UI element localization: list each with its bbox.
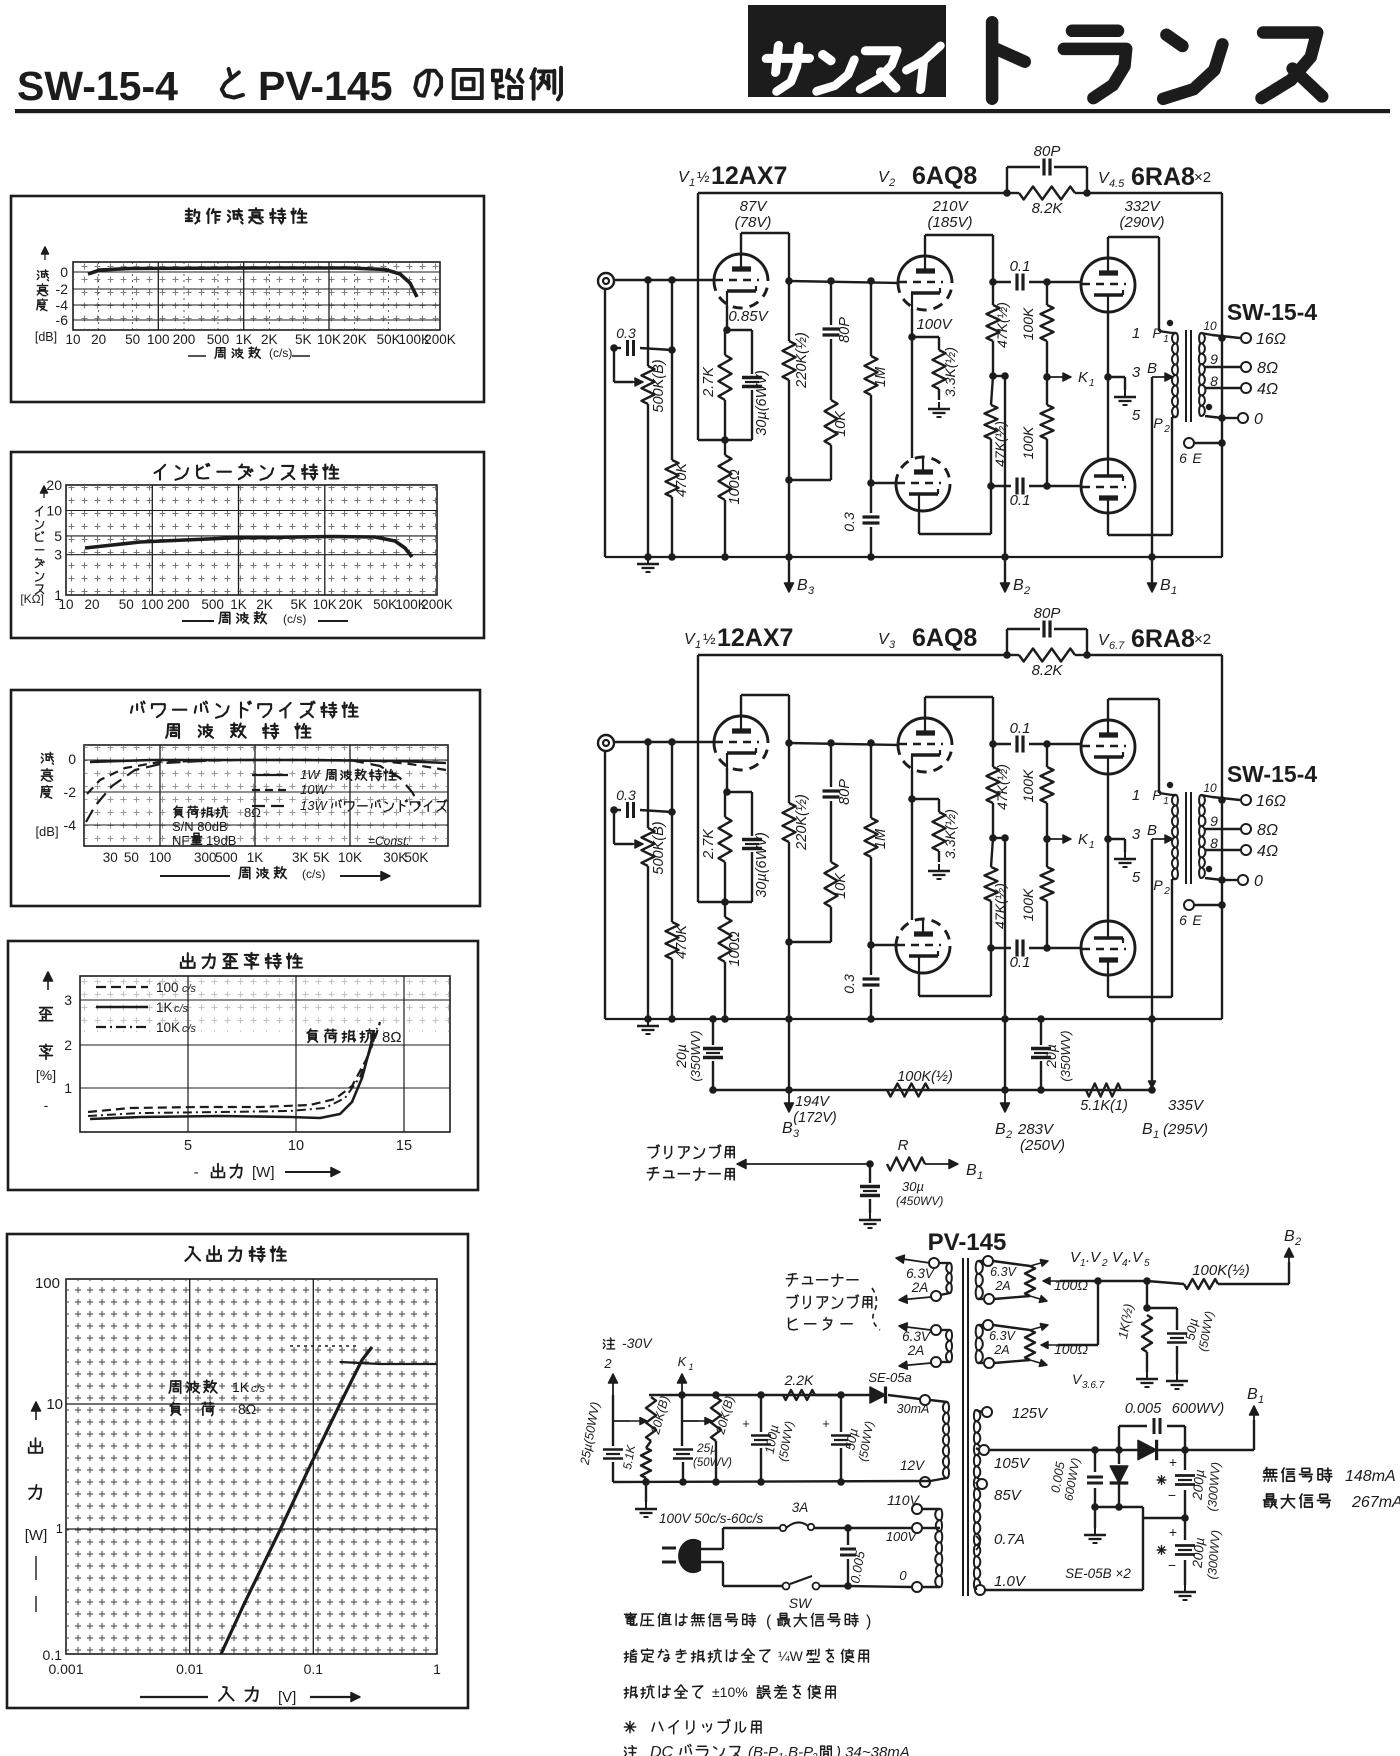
svg-text:SW-15-4: SW-15-4 [1227,299,1317,325]
svg-text:B: B [1247,1386,1258,1403]
svg-text:200K: 200K [424,332,456,347]
svg-text:20: 20 [84,597,99,612]
capacitor 0.3 (tone) [610,344,618,352]
bias supply -30V note [603,1338,614,1349]
svg-text:100: 100 [149,850,172,865]
svg-text:3: 3 [1132,826,1141,843]
svg-text:6RA8: 6RA8 [1131,625,1195,653]
svg-text:10: 10 [46,503,62,519]
svg-text:P: P [1153,877,1163,893]
cathode resistor 3.3K(1/2) [933,812,946,851]
output transformer SW-15-4 primary winding [1172,795,1178,879]
svg-text:±10%: ±10% [712,1684,748,1700]
output tube V5 6RA8 (mirrored) [1081,921,1135,975]
svg-text:(185V): (185V) [927,214,972,231]
volume pot 500K(B) [644,276,652,284]
svg-text:500K(B): 500K(B) [651,821,667,874]
svg-text:1: 1 [977,1170,983,1182]
svg-text:(295V): (295V) [1163,1121,1208,1138]
transformer core [1185,330,1187,422]
svg-text:P: P [1152,787,1162,803]
Sansui logo black box [748,5,946,97]
V5 plate wire to transformer P2 [1107,512,1109,535]
svg-text:E: E [1192,450,1202,466]
line filter capacitor 0.005 [847,1528,849,1545]
svg-text:50K: 50K [373,597,397,612]
svg-text:3: 3 [1132,364,1141,381]
svg-text:10: 10 [1203,781,1217,795]
svg-text:1: 1 [433,1661,441,1677]
svg-text:47K(½): 47K(½) [994,764,1010,810]
triode V2b (1/2 6AQ8 phase splitter) [896,457,950,484]
heater bias network 1K(1/2) + cap [1146,1281,1148,1308]
svg-text:12V: 12V [900,1458,926,1473]
svg-text:4Ω: 4Ω [1257,843,1278,860]
wire up to B2 [1288,1262,1290,1284]
compensation capacitor 80P [827,277,835,285]
cathode ground [1124,390,1126,397]
svg-text:2: 2 [811,1752,818,1756]
svg-text:B: B [782,1120,793,1137]
wire: V1 plate to V2 grid (DC coupled) [789,743,899,745]
svg-text:×2: ×2 [1194,631,1211,648]
hum balance pot 100 ohm upper [1025,1266,1035,1296]
wire: bus down to 16-ohm tap [1221,193,1223,338]
V4 grid wire [1047,743,1082,745]
svg-text:3: 3 [808,585,815,597]
svg-text:6: 6 [1179,450,1187,466]
svg-text:0.3: 0.3 [616,787,636,803]
svg-text:-4: -4 [64,817,77,833]
top feedback bus wire [698,654,1007,656]
svg-text:2.2K: 2.2K [784,1372,814,1388]
output ground [1184,1585,1186,1592]
heater secondary 6.3V (V1 V2 V4 V5) [976,1261,983,1299]
plate load resistor 220K(1/2) [783,803,796,842]
svg-text:B: B [797,577,808,594]
ground symbol at rail [647,557,649,564]
bias filter cap 25u(50WV) far left [612,1395,614,1446]
svg-text:1K: 1K [156,1000,173,1015]
svg-text:10: 10 [288,1138,304,1154]
svg-text:2: 2 [1294,1236,1301,1248]
feedback resistor 8.2K [1019,187,1075,200]
dropping resistor R [887,1158,925,1171]
chart 2 grid [66,485,437,595]
svg-text:0.3: 0.3 [841,512,857,532]
svg-text:PV-145: PV-145 [928,1229,1007,1256]
svg-text:2A: 2A [994,1279,1010,1293]
svg-text:E: E [1192,912,1202,928]
svg-text:8.2K: 8.2K [1032,200,1064,217]
bias output arrow 2 [612,1374,614,1395]
svg-text:220K(½): 220K(½) [794,794,810,851]
network ground right [1176,1374,1178,1381]
svg-text:DC: DC [650,1744,674,1756]
svg-text:[W]: [W] [25,1527,48,1544]
svg-text:2: 2 [1023,585,1030,597]
output tube V4 6RA8 [1081,258,1135,312]
wire: jack to ground rail [604,288,606,557]
svg-text:SE-05B ×2: SE-05B ×2 [1065,1566,1131,1581]
svg-text:100: 100 [156,980,179,995]
svg-text:3A: 3A [792,1500,809,1515]
note: voltages at no signal (max signal) [625,1613,756,1627]
svg-text:SE-05a: SE-05a [868,1370,911,1385]
bypass cap 50u(50WV) [1176,1308,1178,1330]
bias filter cap 25u(50WV) second [681,1395,683,1446]
transformer phase dot P1 [1167,782,1173,788]
chart 4 grid [80,976,450,1132]
capacitor ground [1094,1528,1096,1535]
16 ohm output tap [1218,796,1226,804]
svg-text:1W: 1W [300,767,321,782]
compensation capacitor 80P [827,739,835,747]
bias pot 20K(B) first [646,1397,656,1441]
chart 5 y axis caption [35,1402,37,1420]
secondary phase dot [1206,866,1212,872]
0 ohm output tap [1205,416,1222,418]
feedback wire to V1 cathode [697,193,699,440]
svg-text:2: 2 [1163,886,1170,897]
V4 plate wire to transformer P1 [1107,237,1109,259]
svg-text:-: - [44,1097,49,1113]
capacitor ground [869,1213,871,1220]
HT rectifier line from 105V [989,1449,1095,1451]
svg-text:220K(½): 220K(½) [794,332,810,389]
feedback capacitor 80P [1006,629,1008,655]
svg-text:(c/s): (c/s) [269,346,292,360]
svg-text:10: 10 [46,1396,63,1413]
input grid wire [613,279,715,281]
svg-text:-2: -2 [64,784,77,800]
grid resistor 470K [668,738,676,746]
svg-text:600WV): 600WV) [1172,1401,1224,1417]
svg-text:100Ω: 100Ω [727,931,743,966]
AC plug [679,1540,700,1572]
B1 node [1148,1086,1156,1094]
svg-text:−: − [1168,1487,1176,1503]
bias return line [613,1481,930,1482]
svg-text:0.85V: 0.85V [728,308,769,325]
input grid wire [613,741,715,743]
svg-text:1: 1 [1258,1394,1264,1406]
bias winding terminal bottom [920,1477,930,1487]
svg-text:87V: 87V [740,198,769,215]
svg-text:85V: 85V [994,1487,1023,1504]
chart 5 grid [66,1279,437,1654]
svg-text:(350WV): (350WV) [1058,1030,1073,1081]
svg-text:(290V): (290V) [1119,214,1164,231]
svg-text:1.0V: 1.0V [994,1573,1027,1590]
coupling capacitor 0.1 (lower) [991,485,1011,487]
svg-text:335V: 335V [1168,1097,1205,1114]
svg-text:10K: 10K [833,872,849,899]
V1 cathode network wires [726,768,728,792]
svg-text:8: 8 [1210,835,1218,851]
0 ohm output tap [1205,878,1222,880]
svg-text:.V: .V [1086,1249,1102,1266]
svg-text:100: 100 [35,1275,60,1292]
chart 4 load label [307,1029,373,1043]
svg-text:-4: -4 [56,297,69,313]
svg-text:500: 500 [215,850,238,865]
svg-text:5.1K(1): 5.1K(1) [1080,1098,1128,1114]
output transformer SW-15-4 primary winding [1172,333,1178,417]
svg-text:30µ: 30µ [902,1179,924,1194]
wire: V1 plate to V2 grid (DC coupled) [789,281,899,283]
svg-text:80P: 80P [837,317,853,343]
svg-text:[dB]: [dB] [35,824,58,839]
svg-text:200K: 200K [421,597,453,612]
V2a plate wire [924,235,926,257]
svg-text:1: 1 [1171,585,1177,597]
primary terminal 100V [912,1523,922,1533]
svg-text:) 34~38mA: ) 34~38mA [834,1744,910,1756]
cathode resistor 2.7K [719,817,732,862]
svg-text:1K: 1K [235,332,252,347]
svg-text:0.01: 0.01 [176,1661,203,1677]
ground symbol at rail [647,1019,649,1026]
input jack [598,273,614,289]
E terminal [1184,438,1194,448]
svg-text:−: − [1168,1557,1176,1573]
svg-text:3.3K(½): 3.3K(½) [942,809,958,859]
svg-text:9: 9 [1210,351,1218,367]
svg-text:×2: ×2 [1194,169,1211,186]
svg-text:(: ( [766,1613,772,1630]
svg-text:20K: 20K [339,597,363,612]
wire to B2 supply [993,375,1005,377]
svg-text:200µ: 200µ [1190,1469,1208,1502]
svg-text:100K: 100K [1020,769,1036,802]
svg-text:(c/s): (c/s) [302,867,325,881]
svg-text:-: - [194,1164,199,1181]
svg-text:283V: 283V [1017,1121,1055,1138]
svg-text:20: 20 [91,332,106,347]
V4/V5 cathode wires [1107,773,1109,922]
wire 0-tap to rail [1221,338,1223,557]
svg-text:267mA: 267mA [1351,1494,1400,1511]
svg-text:6RA8: 6RA8 [1131,163,1195,191]
svg-text:S/N 80dB: S/N 80dB [172,819,228,834]
svg-text:10: 10 [58,597,73,612]
svg-text:c/s: c/s [174,1003,189,1015]
chart 3 grid [84,745,448,846]
heater winding primary-side upper 6.3V 2A [946,1263,952,1293]
svg-text:2A: 2A [907,1343,925,1358]
filter capacitor 20u(350WV) left [712,1019,714,1045]
svg-text:5: 5 [1132,407,1141,424]
chart 5 condition text [169,1380,217,1393]
svg-text:10K: 10K [833,410,849,437]
svg-text:B: B [995,1121,1006,1138]
svg-text:5K: 5K [295,332,312,347]
svg-text:-2: -2 [56,281,69,297]
svg-text:c/s: c/s [182,983,197,995]
chart 5: input/output characteristic [7,1234,468,1708]
primary winding [935,1509,942,1587]
svg-text:20K: 20K [343,332,367,347]
cathode resistor 100 ohm [719,917,732,962]
svg-text:3K: 3K [292,850,309,865]
svg-text:16Ω: 16Ω [1256,793,1286,810]
svg-text:500: 500 [201,597,224,612]
chart 3 x caption [160,875,230,877]
svg-text:8: 8 [1210,373,1218,389]
svg-text:(172V): (172V) [793,1110,837,1126]
chart 1 x axis caption [188,355,206,357]
svg-text:1M: 1M [873,366,889,387]
svg-text:16Ω: 16Ω [1256,331,1286,348]
svg-text:100V 50c/s-60c/s: 100V 50c/s-60c/s [659,1511,764,1526]
wire: bus down to 16-ohm tap [1221,655,1223,800]
svg-text:[dB]: [dB] [35,330,57,344]
svg-text:50K: 50K [404,850,428,865]
surge capacitor 0.005 600WV to ground [1094,1450,1096,1472]
svg-text:B: B [1160,577,1171,594]
wire to B2 supply [993,837,1005,839]
resistor 5.1K to ground [646,1441,651,1448]
fuse 3A [780,1525,786,1531]
svg-text:PV-145: PV-145 [258,63,393,109]
svg-text:(B-P: (B-P [748,1744,778,1756]
coupling capacitor 0.1 (upper) [993,281,1011,283]
svg-text:4Ω: 4Ω [1257,381,1278,398]
svg-text:6.3V: 6.3V [989,1329,1016,1343]
svg-text:0.7A: 0.7A [994,1531,1025,1548]
svg-text:6.3V: 6.3V [906,1266,936,1281]
bias winding terminal top [920,1395,930,1405]
chart 4 legend [96,986,148,988]
cathode resistor 2.7K [719,355,732,400]
svg-text:P: P [1153,415,1163,431]
svg-text:6: 6 [1179,912,1187,928]
svg-text:6.7: 6.7 [1109,640,1125,652]
svg-text:[V]: [V] [278,1689,296,1706]
svg-text:1: 1 [688,1362,693,1372]
lower pot wiper [1041,1344,1058,1346]
chart 4: output distortion characteristic [8,941,478,1190]
svg-text:0.1: 0.1 [1010,954,1031,971]
note: DC balance [624,1746,636,1756]
primary terminal 110V [912,1504,922,1514]
triode V2b (1/2 6AQ8 phase splitter) [896,919,950,946]
svg-text:5: 5 [1144,1258,1150,1269]
svg-text:+: + [742,1416,750,1431]
svg-text:3: 3 [889,639,896,651]
svg-text:0.3: 0.3 [616,325,636,341]
svg-text:148mA: 148mA [1345,1468,1396,1485]
heater label tuner/preamp [786,1274,858,1287]
svg-text:12AX7: 12AX7 [711,162,787,190]
svg-text:1K: 1K [230,597,247,612]
svg-text:B: B [1013,577,1024,594]
svg-text:2A: 2A [911,1280,929,1295]
svg-text:6AQ8: 6AQ8 [912,624,977,652]
svg-text:2: 2 [1163,424,1170,435]
network ground left [1146,1372,1148,1379]
V2b grid wire [871,482,897,484]
wire: jack to ground rail [604,750,606,1019]
grid resistor 100K (upper) [1043,278,1051,286]
output tube V5 6RA8 (mirrored) [1081,459,1135,513]
mains wiring upper [700,1548,723,1550]
svg-text:6.3V: 6.3V [902,1329,932,1344]
svg-text:1: 1 [1163,334,1169,345]
triode V2a (1/2 6AQ8) [898,256,952,283]
svg-text:1: 1 [1089,378,1095,389]
svg-text:13W: 13W [300,798,328,813]
svg-text:0: 0 [899,1568,907,1583]
grid resistor 100K (upper) [1043,740,1051,748]
svg-text:80P: 80P [1034,605,1061,622]
wire up to B1 [1253,1420,1255,1450]
svg-text:500: 500 [207,332,230,347]
svg-text:10K: 10K [317,332,341,347]
svg-text:100V: 100V [886,1529,918,1544]
svg-text:19dB: 19dB [206,833,236,848]
Transformer katakana heading [992,22,1025,99]
wire to B3 supply [788,942,790,1090]
capacitor 0.3 (tone) [610,806,618,814]
cathode ground [1124,852,1126,859]
svg-text:332V: 332V [1124,198,1161,215]
HT tap 1.0V [975,1585,985,1595]
svg-text:20: 20 [46,477,62,493]
svg-text:1: 1 [695,639,701,651]
B2 feed arrow [1001,1086,1009,1094]
bias filter cap 50u(50WV) [840,1395,842,1432]
svg-text:R: R [898,1137,909,1154]
chart 1 response curve [88,268,417,297]
16 ohm output tap [1218,334,1226,342]
svg-text:SW-15-4: SW-15-4 [1227,761,1317,787]
triode V2a (1/2 6AQ8) [898,718,952,745]
svg-text:80P: 80P [837,779,853,805]
svg-text:-6: -6 [56,312,69,328]
cathode bypass capacitor 30u(6WV) [742,838,762,841]
chart 2 x caption [182,620,214,622]
svg-text:1: 1 [1132,787,1140,804]
V1 plate wire [740,233,742,255]
svg-text:0: 0 [68,751,76,767]
svg-text:0: 0 [1254,411,1263,428]
svg-text:194V: 194V [795,1094,830,1110]
svg-text:SW-15-4: SW-15-4 [17,63,178,109]
svg-text:1: 1 [1089,840,1095,851]
top feedback bus wire [698,192,1007,194]
svg-text:1K: 1K [232,1379,250,1395]
snubber capacitor 0.005 600WV [1118,1426,1120,1450]
bias winding [943,1402,949,1478]
plate resistor 47K(1/2) [987,305,1000,341]
svg-text:100K(½): 100K(½) [1192,1262,1250,1279]
grid resistor 470K [668,276,676,284]
wire 0-tap to rail [1221,800,1223,1019]
svg-text:10K: 10K [338,850,362,865]
svg-text:50: 50 [119,597,134,612]
svg-text:8Ω: 8Ω [382,1029,402,1046]
bias pot 20K(B) second [711,1397,721,1441]
svg-text:(450WV): (450WV) [896,1194,943,1208]
svg-text:5: 5 [184,1138,192,1154]
output transformer secondary winding [1199,333,1206,416]
bias rectifier diode SE-05a [870,1387,886,1403]
svg-text:0.1: 0.1 [1010,258,1031,275]
svg-text:8.2K: 8.2K [1032,662,1064,679]
note: unmarked resistors 1/4W [624,1649,770,1663]
